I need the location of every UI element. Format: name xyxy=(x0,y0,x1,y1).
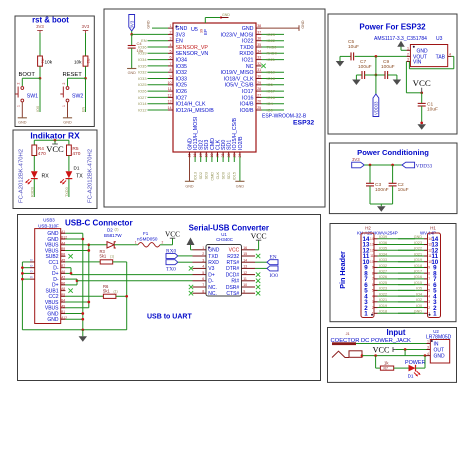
no-connect marks left side xyxy=(189,266,193,270)
svg-text:IO0/B: IO0/B xyxy=(240,108,254,114)
svg-text:IO12/H_MISO/B: IO12/H_MISO/B xyxy=(176,108,215,114)
wire jack sleeve to GND pin xyxy=(361,354,364,357)
net label CLK xyxy=(217,157,219,163)
svg-text:3V3: 3V3 xyxy=(36,24,44,29)
svg-text:36: 36 xyxy=(257,37,261,41)
svg-text:IO4/B: IO4/B xyxy=(240,102,254,108)
wire EP to GND xyxy=(205,17,221,19)
svg-text:IO22: IO22 xyxy=(242,39,254,45)
ground xyxy=(185,180,194,182)
pin 7 IO35 xyxy=(168,65,173,67)
svg-text:8: 8 xyxy=(372,271,374,275)
pin 20 CLK xyxy=(217,152,219,157)
wire pin15 to ground xyxy=(189,157,191,182)
svg-text:6: 6 xyxy=(170,56,172,60)
svg-text:D1: D1 xyxy=(74,166,80,171)
svg-text:SD1: SD1 xyxy=(227,172,231,179)
svg-text:33: 33 xyxy=(257,56,261,60)
wire pin24 to ground xyxy=(239,157,241,182)
pin 23 IO15/H_CS/B xyxy=(233,152,235,157)
svg-text:(2): (2) xyxy=(115,228,119,232)
pin 11 IO26 xyxy=(168,90,173,92)
USB-C shield pins (left) xyxy=(30,261,35,263)
svg-text:CTS#: CTS# xyxy=(226,291,239,297)
node BOOT xyxy=(39,77,42,80)
svg-text:TXD0: TXD0 xyxy=(65,187,69,197)
net label IO0 xyxy=(39,78,41,112)
pin 4 SENSOR_VP xyxy=(168,46,173,48)
pin 3 RXD xyxy=(193,261,207,263)
net label TXD0 xyxy=(68,179,70,197)
svg-text:VCC: VCC xyxy=(373,346,390,355)
wire xyxy=(21,102,23,118)
net label IO0 xyxy=(262,109,285,111)
pin 15 GND xyxy=(189,152,191,157)
svg-text:GND: GND xyxy=(47,317,59,323)
pin 12 DCD# xyxy=(242,274,256,276)
svg-text:D1: D1 xyxy=(408,374,414,379)
net label IO32 xyxy=(148,71,169,73)
net label IO25 xyxy=(148,84,169,86)
pin 6 IO34 xyxy=(168,59,173,61)
svg-text:J1: J1 xyxy=(346,332,350,336)
svg-text:IO18/V_CLK: IO18/V_CLK xyxy=(224,76,254,82)
svg-text:2: 2 xyxy=(17,83,21,85)
block Power Conditioning xyxy=(329,143,457,214)
pin 8 NC. xyxy=(193,292,207,294)
pin 38 GND xyxy=(256,27,262,29)
svg-text:USB-C Connector: USB-C Connector xyxy=(65,219,133,228)
wire xyxy=(67,102,69,118)
svg-text:IO21: IO21 xyxy=(379,298,387,302)
pin 35 TXD0 xyxy=(256,46,262,48)
wire CC2 to R6 xyxy=(65,295,103,297)
pin 9 CTS# xyxy=(242,292,256,294)
svg-text:USB to UART: USB to UART xyxy=(147,314,192,321)
svg-text:3V3: 3V3 xyxy=(176,32,185,38)
pin 3 EN xyxy=(168,40,173,42)
pin 28 IO17 xyxy=(256,90,262,92)
svg-text:0: 0 xyxy=(30,270,34,272)
svg-text:IO23: IO23 xyxy=(267,32,275,37)
svg-text:D2: D2 xyxy=(107,228,113,233)
resistor R7 1k xyxy=(380,366,393,370)
net label GND (pin 1) xyxy=(152,27,168,29)
svg-text:FC-A2012BK-470H2: FC-A2012BK-470H2 xyxy=(18,149,24,203)
wire xyxy=(416,367,426,369)
pin 1 GND xyxy=(193,249,207,251)
svg-text:C4: C4 xyxy=(137,41,143,46)
capacitor C9 100uF xyxy=(376,74,385,76)
wire left bracket xyxy=(21,262,23,330)
svg-text:25: 25 xyxy=(257,106,261,110)
ground xyxy=(377,206,386,212)
svg-text:470: 470 xyxy=(38,151,46,157)
svg-text:IO34: IO34 xyxy=(138,57,147,62)
svg-text:U2: U2 xyxy=(433,329,439,334)
net label SD2 xyxy=(200,157,202,163)
ground xyxy=(355,75,357,80)
wire CC1 to R3 xyxy=(65,261,100,263)
svg-text:GND: GND xyxy=(185,184,194,188)
svg-text:V3: V3 xyxy=(208,266,214,272)
svg-text:VCC: VCC xyxy=(165,229,180,238)
svg-text:10: 10 xyxy=(168,81,172,85)
svg-text:27: 27 xyxy=(257,93,261,97)
svg-text:3: 3 xyxy=(372,300,374,304)
svg-text:2: 2 xyxy=(372,306,374,310)
node xyxy=(391,164,394,167)
svg-text:RXD0: RXD0 xyxy=(30,187,34,197)
pin 22 SD1 xyxy=(228,152,230,157)
net label SD3 xyxy=(205,157,207,163)
svg-text:nSMD050: nSMD050 xyxy=(137,236,158,241)
pin 39 EP xyxy=(204,18,206,24)
ground xyxy=(417,124,426,130)
svg-text:13: 13 xyxy=(370,243,374,247)
svg-text:VCC: VCC xyxy=(46,144,64,154)
net label IO23 xyxy=(262,33,285,35)
wire xyxy=(39,66,41,78)
svg-text:5: 5 xyxy=(372,289,374,293)
svg-text:IO19: IO19 xyxy=(267,70,275,75)
net label IO39 xyxy=(148,52,169,54)
svg-text:1: 1 xyxy=(364,310,368,317)
pin 2 3V3 xyxy=(168,33,173,35)
wire xyxy=(39,33,41,56)
svg-text:8: 8 xyxy=(202,289,204,293)
svg-text:TAB: TAB xyxy=(436,54,446,60)
svg-text:GND: GND xyxy=(414,235,423,239)
svg-text:IO26: IO26 xyxy=(138,89,146,94)
svg-text:IO22: IO22 xyxy=(267,38,275,43)
svg-text:5: 5 xyxy=(202,271,204,275)
svg-text:4: 4 xyxy=(428,294,430,298)
svg-text:IO25: IO25 xyxy=(379,281,387,285)
svg-text:VIN: VIN xyxy=(413,60,422,66)
svg-text:Power Conditioning: Power Conditioning xyxy=(357,148,429,157)
svg-text:IO4: IO4 xyxy=(267,101,274,106)
svg-text:IO21: IO21 xyxy=(242,58,254,64)
svg-text:RESET: RESET xyxy=(63,72,83,78)
svg-text:10: 10 xyxy=(428,260,432,264)
wire jack to IN xyxy=(356,343,427,345)
switch SW2 xyxy=(66,87,69,90)
svg-text:29: 29 xyxy=(257,81,261,85)
pin 17 SD2 xyxy=(200,152,202,157)
svg-text:7: 7 xyxy=(372,277,374,281)
wire xyxy=(85,33,87,56)
svg-text:4: 4 xyxy=(449,52,451,56)
pin 13 DTR# xyxy=(242,267,256,269)
wire VOUT rail xyxy=(340,55,351,57)
power flag VCC xyxy=(172,238,174,245)
svg-text:VCC: VCC xyxy=(229,248,240,254)
svg-text:Power For ESP32: Power For ESP32 xyxy=(359,23,426,32)
net label IO13 xyxy=(194,157,196,163)
svg-text:IO23: IO23 xyxy=(379,287,387,291)
block Input xyxy=(328,328,457,383)
svg-text:16: 16 xyxy=(243,246,247,250)
ground xyxy=(235,180,244,182)
svg-text:2: 2 xyxy=(162,241,164,245)
svg-text:D+: D+ xyxy=(208,272,215,278)
node xyxy=(420,122,423,125)
pin 8 IO32 xyxy=(168,71,173,73)
wire xyxy=(22,77,40,79)
svg-text:5k1: 5k1 xyxy=(103,289,110,294)
svg-text:10uF: 10uF xyxy=(427,107,438,113)
svg-text:IO32: IO32 xyxy=(176,70,188,76)
svg-text:SD3: SD3 xyxy=(205,172,209,179)
svg-text:VDD33: VDD33 xyxy=(374,101,379,115)
resistor R5 470 xyxy=(67,145,72,156)
node 3V3/pin2 xyxy=(130,33,133,36)
svg-text:IO27: IO27 xyxy=(138,95,146,100)
svg-text:IO5: IO5 xyxy=(267,82,273,87)
svg-text:R5: R5 xyxy=(72,146,78,152)
svg-text:1: 1 xyxy=(433,310,437,317)
svg-text:3V3: 3V3 xyxy=(129,20,134,28)
svg-text:R232: R232 xyxy=(227,254,239,260)
ground xyxy=(336,61,345,67)
pin 30 IO18/V_CLK xyxy=(256,78,262,80)
net label TXD0 xyxy=(262,46,285,48)
svg-text:1: 1 xyxy=(202,246,204,250)
svg-text:1: 1 xyxy=(17,105,21,107)
svg-text:IO13: IO13 xyxy=(194,172,198,180)
svg-text:11: 11 xyxy=(370,254,374,258)
pin 16 VCC xyxy=(242,249,256,251)
switch SW1 xyxy=(21,87,24,90)
wire xyxy=(114,244,138,246)
ground xyxy=(396,75,398,80)
svg-text:TXD: TXD xyxy=(208,254,218,260)
pin 10 IO25 xyxy=(168,84,173,86)
svg-text:D-: D- xyxy=(208,279,214,285)
node xyxy=(424,354,427,357)
svg-text:0: 0 xyxy=(30,276,34,278)
pin 19 CMD xyxy=(211,152,213,157)
svg-text:IO26: IO26 xyxy=(379,275,387,279)
svg-text:IO19: IO19 xyxy=(379,304,387,308)
svg-text:USB3: USB3 xyxy=(43,218,55,223)
net label IO15 xyxy=(233,157,235,163)
svg-text:12: 12 xyxy=(370,248,374,252)
no-connect SUB2 xyxy=(68,254,72,258)
wire xyxy=(339,56,341,61)
net flag VDD33 xyxy=(402,162,415,168)
svg-text:NC: NC xyxy=(246,64,254,70)
wire VBUS bus xyxy=(88,245,90,308)
svg-text:3V3: 3V3 xyxy=(352,157,360,162)
svg-text:IO27: IO27 xyxy=(379,269,387,273)
wire TAB loop xyxy=(451,55,453,57)
pin 26 IO4/B xyxy=(256,103,262,105)
svg-text:IO0: IO0 xyxy=(270,273,279,279)
svg-text:B5817W: B5817W xyxy=(104,233,122,238)
svg-text:AMS1117-3.3_C351784: AMS1117-3.3_C351784 xyxy=(374,36,427,42)
node RESET xyxy=(84,77,87,80)
pin 15 R232 xyxy=(242,255,256,257)
net label IO21 xyxy=(262,59,285,61)
svg-text:GND: GND xyxy=(128,71,137,75)
net label IO12 xyxy=(148,109,169,111)
svg-text:GND: GND xyxy=(63,120,72,124)
wire RTS# to EN xyxy=(255,261,267,263)
wire pin38 to GND label xyxy=(262,27,300,29)
svg-text:IO32: IO32 xyxy=(379,264,387,268)
pin 1 GND xyxy=(168,27,173,29)
wire xyxy=(178,261,193,263)
svg-text:5k1: 5k1 xyxy=(100,254,107,259)
block ESP32 xyxy=(104,9,325,207)
pin 7 NC. xyxy=(193,286,207,288)
svg-text:DCD#: DCD# xyxy=(226,272,240,278)
svg-text:32: 32 xyxy=(257,62,261,66)
svg-text:IO15: IO15 xyxy=(414,281,422,285)
svg-text:IO18: IO18 xyxy=(267,76,275,81)
svg-text:Pin Header: Pin Header xyxy=(338,251,347,289)
svg-text:VCC: VCC xyxy=(413,78,431,88)
node xyxy=(369,164,372,167)
svg-text:SENSOR_VP: SENSOR_VP xyxy=(176,45,209,51)
svg-text:31: 31 xyxy=(257,68,261,72)
svg-text:R7: R7 xyxy=(384,366,388,370)
svg-text:IO33: IO33 xyxy=(138,76,146,81)
wire xyxy=(34,139,69,141)
net label IO36 xyxy=(148,46,169,48)
block rst & boot xyxy=(15,16,94,127)
svg-text:9: 9 xyxy=(170,75,172,79)
wire VCC pin xyxy=(255,249,259,251)
svg-text:12: 12 xyxy=(168,93,172,97)
node VOUT/VDD33 xyxy=(375,55,378,58)
svg-text:IO35: IO35 xyxy=(176,64,188,70)
svg-text:12: 12 xyxy=(243,271,247,275)
net label EN xyxy=(85,78,87,112)
pin 34 RXD0 xyxy=(256,52,262,54)
svg-text:IO25: IO25 xyxy=(176,83,188,89)
svg-text:IO12: IO12 xyxy=(138,107,146,112)
svg-text:0: 0 xyxy=(30,264,34,266)
svg-text:13: 13 xyxy=(243,265,247,269)
svg-text:38: 38 xyxy=(257,24,261,28)
svg-text:IO17: IO17 xyxy=(242,89,254,95)
svg-text:TX: TX xyxy=(76,174,83,180)
svg-text:3: 3 xyxy=(170,37,172,41)
svg-text:DSR#: DSR# xyxy=(226,285,240,291)
svg-text:RXD: RXD xyxy=(208,260,219,266)
power flag VCC xyxy=(54,139,57,142)
ground xyxy=(63,117,72,119)
svg-text:100nF: 100nF xyxy=(375,187,389,193)
svg-text:11: 11 xyxy=(168,87,172,91)
svg-text:34: 34 xyxy=(257,49,261,53)
svg-text:IO34: IO34 xyxy=(176,58,188,64)
svg-text:IO19: IO19 xyxy=(414,258,422,262)
svg-text:IO15: IO15 xyxy=(233,172,237,180)
svg-text:15: 15 xyxy=(243,252,247,256)
svg-text:TXD0: TXD0 xyxy=(240,45,254,51)
wire to R7 xyxy=(374,354,377,357)
svg-text:IO19/V_MISO: IO19/V_MISO xyxy=(221,70,254,76)
capacitor C7 100uF xyxy=(356,74,362,76)
svg-text:1: 1 xyxy=(170,24,172,28)
wire GND pin xyxy=(401,49,406,51)
svg-text:IO14: IO14 xyxy=(138,101,147,106)
svg-text:GND: GND xyxy=(414,310,423,314)
svg-text:SENSOR_VN: SENSOR_VN xyxy=(176,51,209,57)
wire DTR# to IO0 xyxy=(255,267,267,269)
capacitor C4 10u xyxy=(131,34,133,45)
svg-text:10k: 10k xyxy=(45,60,53,65)
svg-text:30: 30 xyxy=(257,75,261,79)
resistor R2 10k xyxy=(83,56,88,66)
block Power For ESP32 xyxy=(328,14,457,134)
net label IO4 xyxy=(262,103,285,105)
svg-text:8: 8 xyxy=(428,271,430,275)
net label IO35 xyxy=(148,65,169,67)
svg-text:IO14/H_CLK: IO14/H_CLK xyxy=(176,102,206,108)
svg-text:3V3: 3V3 xyxy=(82,24,90,29)
capacitor C3 100nF xyxy=(369,165,371,183)
net label RXD0 xyxy=(33,179,35,197)
svg-text:14: 14 xyxy=(168,106,172,110)
svg-text:IO0: IO0 xyxy=(36,106,40,112)
svg-text:10uF: 10uF xyxy=(398,187,409,193)
svg-text:FC-A2012BK-470H2: FC-A2012BK-470H2 xyxy=(88,149,94,203)
ground xyxy=(397,41,405,47)
svg-text:IO17: IO17 xyxy=(267,89,275,94)
net label IO26 xyxy=(148,90,169,92)
svg-text:14: 14 xyxy=(370,237,374,241)
svg-text:IO22: IO22 xyxy=(414,247,422,251)
wire D- to CH340 xyxy=(77,280,193,282)
ground xyxy=(82,330,84,337)
power flag 3V3 xyxy=(129,15,135,32)
svg-text:SD2: SD2 xyxy=(199,172,203,179)
svg-text:2: 2 xyxy=(170,30,172,34)
svg-text:11: 11 xyxy=(428,254,432,258)
pin 25 IO0/B xyxy=(256,109,262,111)
net label IO34 xyxy=(148,59,169,61)
no-connect SUB1 xyxy=(68,288,72,292)
pin 27 IO16 xyxy=(256,96,262,98)
svg-text:1: 1 xyxy=(407,46,409,50)
svg-text:10k: 10k xyxy=(74,60,82,65)
wire xyxy=(85,66,87,78)
pin 16 IO13/H_MOSI xyxy=(194,152,196,157)
net label IO17 xyxy=(262,90,285,92)
svg-text:2: 2 xyxy=(407,52,409,56)
pin 31 IO19/V_MISO xyxy=(256,71,262,73)
net port TX0 xyxy=(166,260,178,265)
svg-text:100uF: 100uF xyxy=(358,64,372,70)
svg-text:IO2: IO2 xyxy=(416,298,422,302)
svg-text:RTS#: RTS# xyxy=(226,260,239,266)
node VCC xyxy=(420,91,423,94)
svg-text:3: 3 xyxy=(428,300,430,304)
svg-text:10u: 10u xyxy=(137,48,144,53)
svg-text:1: 1 xyxy=(135,241,137,245)
svg-text:U5: U5 xyxy=(191,27,198,33)
svg-text:GND: GND xyxy=(417,48,429,54)
svg-text:DTR#: DTR# xyxy=(226,266,239,272)
svg-text:4: 4 xyxy=(372,294,374,298)
pin 13 IO14/H_CLK xyxy=(168,103,173,105)
svg-text:2: 2 xyxy=(202,252,204,256)
